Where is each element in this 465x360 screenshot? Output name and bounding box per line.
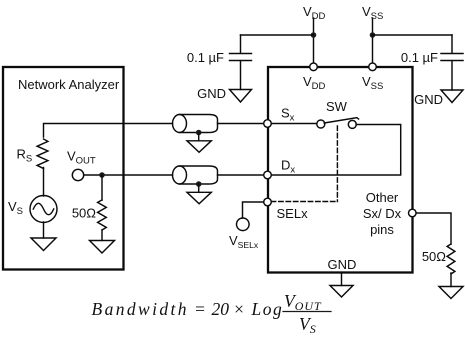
svg-text:VOUT: VOUT (284, 291, 322, 313)
ground (below termination 50ohm) (439, 287, 463, 299)
svg-text:VOUT: VOUT (67, 149, 96, 167)
coax cable (Sx path) (180, 115, 218, 133)
IC box U1 (268, 67, 413, 273)
resistor 50ohm (analyzer load) (98, 200, 107, 230)
node: VSS junction dot (370, 32, 376, 38)
wire: VDD rail down to pin (313, 18, 315, 66)
wire: VSS rail down to pin (372, 18, 374, 66)
ground (below VS) (31, 238, 56, 251)
Network Analyzer box (3, 67, 124, 270)
ground (below C2) (441, 90, 463, 103)
svg-text:pins: pins (370, 222, 394, 237)
svg-text:VSS: VSS (362, 74, 383, 92)
source VS (AC) (30, 196, 57, 223)
pin VSS circle (369, 63, 377, 71)
svg-text:SW: SW (326, 99, 348, 114)
wire: 50ohm to ground (101, 230, 103, 241)
svg-text:0.1 µF: 0.1 µF (187, 50, 224, 65)
wire: Sx coax to Sx pin (218, 123, 264, 125)
svg-text:20: 20 (212, 299, 230, 319)
ground (Sx coax shield) (187, 141, 211, 153)
svg-text:GND: GND (414, 92, 443, 107)
svg-text:=: = (194, 299, 206, 319)
switch SW lever (324, 118, 358, 123)
svg-text:Sx/ Dx: Sx/ Dx (363, 206, 402, 221)
wire: RS to VS source (43, 168, 45, 197)
svg-text:VS: VS (299, 314, 316, 336)
svg-text:VDD: VDD (303, 4, 326, 22)
svg-text:50Ω: 50Ω (422, 249, 446, 264)
wire: switch to Dx loop (271, 125, 400, 176)
capacitor C1 0.1uF (230, 35, 252, 90)
wire: SELx pin to VSELx (243, 202, 264, 218)
wire: dashed control from SW to SELx (336, 126, 338, 202)
source VSELx circle (237, 218, 250, 231)
svg-text:Sx: Sx (281, 106, 295, 124)
svg-text:VSS: VSS (362, 4, 383, 22)
resistor RS (37, 139, 48, 169)
svg-text:×: × (233, 299, 245, 319)
svg-text:VSELx: VSELx (229, 233, 259, 250)
switch SW contacts (317, 120, 325, 128)
ground (below analyzer 50ohm) (90, 241, 115, 254)
wire: other pins to 50 ohm termination (416, 213, 451, 244)
node: coax shield dot (Dx) (196, 181, 202, 187)
ground (below C1) (230, 90, 252, 103)
pin VDD circle (310, 63, 318, 71)
ground (IC GND pin) (330, 286, 353, 298)
pin Dx circle (264, 171, 272, 179)
svg-text:50Ω: 50Ω (72, 206, 96, 221)
wire: GND pin stem (341, 273, 343, 286)
svg-text:VDD: VDD (303, 74, 326, 92)
wire: source top rail to Sx coax (44, 124, 173, 138)
svg-text:GND: GND (328, 257, 357, 272)
wire: VSS junction to right bypass cap (373, 34, 453, 36)
wire: Dx coax to Dx pin (218, 174, 264, 176)
svg-text:Dx: Dx (281, 158, 295, 176)
svg-text:RS: RS (17, 147, 33, 165)
node: VDD junction dot (311, 32, 317, 38)
coax cable (Dx path) (180, 166, 218, 184)
wire: VOUT to Dx coax (84, 174, 173, 176)
svg-text:VS: VS (8, 199, 23, 217)
capacitor C2 0.1uF (441, 35, 463, 90)
node: coax shield dot (Sx) (196, 130, 202, 136)
svg-text:Other: Other (366, 190, 399, 205)
svg-text:Network Analyzer: Network Analyzer (18, 77, 120, 92)
pin Other Sx/Dx circle (409, 209, 417, 217)
port VOUT circle (72, 169, 83, 180)
wire: VS to ground (43, 222, 45, 238)
resistor 50ohm (termination) (447, 244, 455, 274)
pin SELx circle (264, 198, 272, 206)
svg-text:Log: Log (251, 299, 284, 319)
svg-text:GND: GND (197, 86, 226, 101)
wire: VDD junction to left bypass cap (241, 34, 314, 36)
wire: junction down to 50 ohm load (101, 175, 103, 200)
wire: shield stem (Sx) (198, 133, 200, 141)
node: VOUT junction dot (99, 172, 105, 178)
svg-text:Bandwidth: Bandwidth (92, 299, 189, 319)
wire: shield stem (Dx) (198, 184, 200, 192)
ground (Dx coax shield) (187, 192, 211, 204)
svg-text:SELx: SELx (277, 206, 309, 221)
wire: termination to ground (450, 273, 452, 287)
pin Sx circle (264, 120, 272, 128)
wire: Sx pin to switch (271, 123, 317, 125)
svg-text:0.1 µF: 0.1 µF (401, 50, 438, 65)
